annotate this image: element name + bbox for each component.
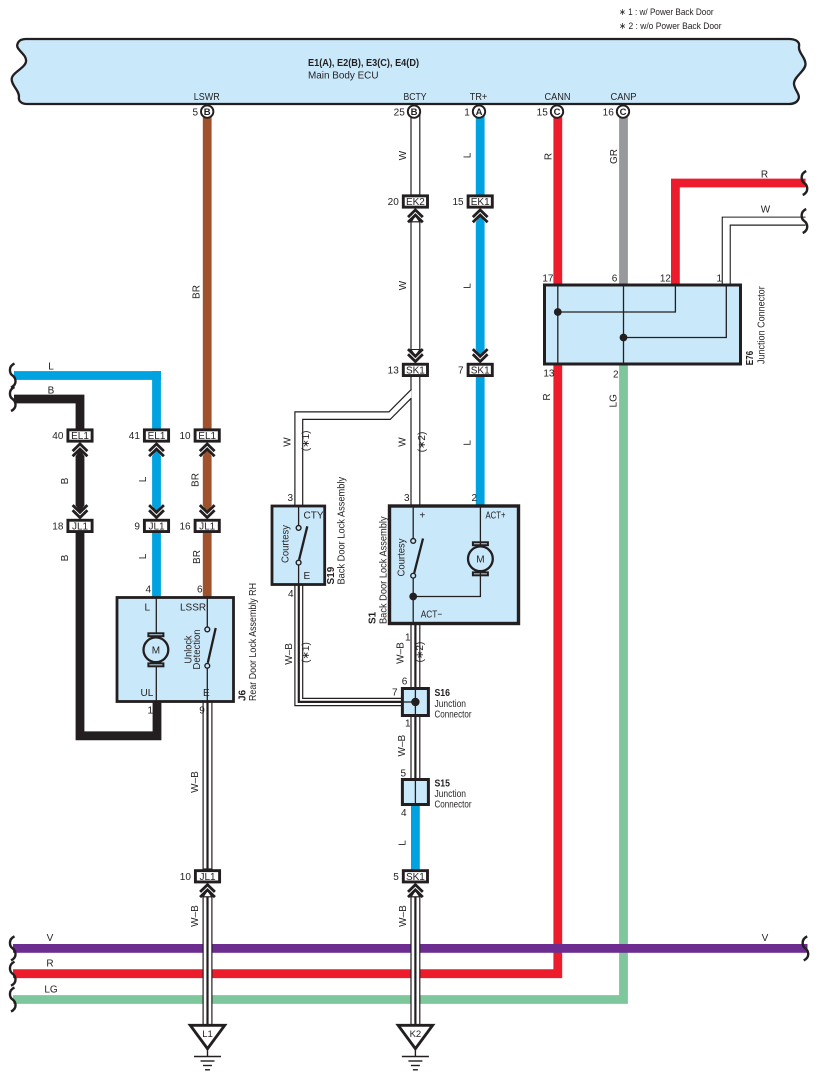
svg-text:W–B: W–B — [398, 905, 409, 927]
S1 junction dot — [409, 593, 417, 601]
connector JL1 pin 16 — [179, 520, 219, 532]
svg-text:ACT+: ACT+ — [486, 511, 506, 522]
svg-text:L: L — [48, 362, 54, 373]
svg-text:Main Body ECU: Main Body ECU — [308, 71, 379, 82]
wire TR+ blue vertical (pin 1 to EK1) — [476, 115, 485, 200]
svg-text:L1: L1 — [202, 1029, 213, 1040]
component S1 Back Door Lock Assembly box — [390, 506, 519, 624]
svg-text:SK1: SK1 — [406, 872, 425, 883]
E76 junction dot pin17 — [554, 308, 562, 316]
ground L1 — [190, 1025, 224, 1070]
svg-text:V: V — [762, 933, 769, 944]
svg-text:Back Door Lock Assembly: Back Door Lock Assembly — [337, 477, 348, 585]
wire blue S15 pin 4 to SK1-5 — [411, 804, 420, 870]
connector SK1 pin 13 — [388, 364, 428, 376]
svg-text:1: 1 — [716, 273, 722, 284]
svg-text:16: 16 — [179, 521, 191, 532]
wire W white E76 pin1 fill — [723, 218, 806, 286]
wire blue below JL1-9 to LSSR pin 4 — [152, 532, 161, 599]
svg-text:W–B: W–B — [284, 643, 295, 665]
S19 courtesy switch — [296, 507, 307, 585]
wire red E76 pin 13 down to bottom corner and left to edge — [13, 364, 558, 974]
connector EK2 pin 20 — [388, 196, 428, 208]
component J6 Rear Door Lock Assembly RH (LSSR) box — [117, 598, 234, 702]
svg-text:1: 1 — [405, 719, 411, 730]
svg-text:5: 5 — [400, 768, 406, 779]
svg-text:S1: S1 — [368, 611, 379, 624]
svg-text:4: 4 — [401, 808, 407, 819]
svg-text:S16: S16 — [435, 688, 451, 699]
chevrons down above SK1-13 — [408, 349, 423, 361]
svg-text:CANP: CANP — [611, 92, 637, 103]
connector EL1 pin 40 — [52, 430, 92, 442]
svg-text:40: 40 — [52, 431, 64, 442]
wire W-B below JL1-10 to ground L1 (over colored horizontals) — [203, 890, 212, 1026]
svg-text:L: L — [463, 283, 474, 289]
svg-text:18: 18 — [52, 521, 64, 532]
chevrons up below SK1-5 — [408, 885, 423, 897]
svg-text:9: 9 — [199, 706, 205, 717]
S1 dot to motor line — [413, 570, 480, 597]
chevrons up below JL1-10 — [200, 885, 215, 897]
svg-text:W–B: W–B — [397, 734, 408, 756]
svg-text:K2: K2 — [410, 1029, 422, 1040]
wire black between EL1-40 and JL1-18 — [76, 456, 85, 506]
svg-text:JL1: JL1 — [72, 521, 89, 532]
svg-text:M: M — [476, 555, 484, 566]
component S16 Junction Connector box — [402, 689, 428, 716]
svg-text:EL1: EL1 — [198, 431, 216, 442]
svg-text:10: 10 — [180, 872, 192, 883]
wire brown tip down above JL1-16 — [203, 505, 212, 512]
svg-text:SK1: SK1 — [406, 365, 425, 376]
svg-text:E: E — [203, 688, 210, 699]
connector SK1 pin 5 — [393, 871, 427, 883]
break symbol LG wire left — [10, 988, 16, 1012]
svg-text:1: 1 — [147, 706, 153, 717]
S16 junction dot — [411, 698, 419, 706]
svg-text:W: W — [398, 437, 409, 447]
pin 16 circle C (CANP) — [603, 105, 630, 118]
svg-text:B: B — [411, 107, 418, 118]
svg-text:B: B — [60, 477, 71, 484]
E76 internal line to pin 1 — [624, 287, 727, 338]
break symbol V wire left — [10, 936, 16, 960]
svg-text:7: 7 — [458, 365, 464, 376]
svg-text:Rear Door Lock Assembly RH: Rear Door Lock Assembly RH — [248, 583, 259, 701]
chevrons up below EK2 — [408, 210, 423, 222]
svg-text:JL1: JL1 — [148, 521, 165, 532]
E76 internal line pin17-13 — [557, 287, 559, 363]
svg-text:4: 4 — [288, 589, 294, 600]
chevrons up below EK1 — [473, 210, 488, 222]
LSSR unlock detection switch — [205, 598, 216, 701]
wire W-B LSSR pin 9 to JL1-10 — [203, 700, 212, 869]
svg-text:BCTY: BCTY — [404, 92, 427, 103]
svg-text:Courtesy: Courtesy — [281, 525, 292, 563]
svg-text:Junction: Junction — [435, 699, 467, 710]
connector EL1 pin 41 — [129, 430, 169, 442]
svg-text:BR: BR — [192, 285, 203, 299]
svg-text:15: 15 — [452, 197, 464, 208]
wire W-B below SK1-5 to ground K2 (over colored horizontals) — [411, 890, 420, 1026]
S15 internal vertical line — [414, 780, 416, 804]
wire blue tip down above JL1-9 — [152, 505, 161, 512]
connector JL1 pin 18 — [52, 520, 92, 532]
wire L blue from left edge (horizontal) — [14, 371, 161, 380]
wire brown tip up below EL1-10 — [203, 450, 212, 457]
break symbol W wire right — [802, 209, 808, 233]
LSSR motor to pin 1 line — [155, 667, 157, 701]
wire blue between EK1 and SK1-7 — [476, 222, 485, 350]
svg-text:BR: BR — [191, 473, 202, 487]
svg-text:L: L — [138, 553, 149, 559]
wire CANP gray vertical (pin 16 to E76 pin 6) — [619, 115, 628, 287]
wire W fork inner line — [303, 398, 412, 507]
wire black tip up below EL1-40 — [76, 450, 85, 457]
wire W fork outer line — [295, 389, 412, 507]
wire black tip down above JL1-18 — [76, 505, 85, 512]
svg-text:EL1: EL1 — [148, 431, 166, 442]
svg-text:B: B — [60, 554, 71, 561]
svg-text:Connector: Connector — [435, 800, 473, 811]
svg-text:LSWR: LSWR — [194, 92, 220, 103]
svg-text:L: L — [138, 476, 149, 482]
svg-text:Courtesy: Courtesy — [397, 539, 408, 577]
svg-text:13: 13 — [543, 369, 555, 380]
motor M of LSSR — [144, 633, 169, 666]
svg-text:JL1: JL1 — [199, 521, 216, 532]
svg-text:L: L — [463, 152, 474, 158]
pin 1 circle A (TR+) — [464, 105, 485, 118]
svg-text:UL: UL — [141, 688, 154, 699]
connector EK1 pin 15 — [452, 196, 492, 208]
wire W white BCTY pin 25 to EK2 — [411, 115, 420, 195]
pin 15 circle C (CANN) — [537, 105, 564, 118]
svg-text:E: E — [304, 571, 311, 582]
wire blue tip up below EK1 — [476, 216, 485, 223]
svg-text:(∗1): (∗1) — [301, 430, 312, 451]
svg-text:6: 6 — [402, 677, 408, 688]
svg-text:B: B — [204, 107, 211, 118]
svg-text:S19: S19 — [326, 566, 337, 584]
component E76 Junction Connector box — [545, 285, 741, 364]
S16 internal vertical line — [414, 689, 416, 715]
svg-text:R: R — [46, 959, 53, 970]
svg-text:CANN: CANN — [545, 92, 571, 103]
S1 pin 2 to motor line — [479, 507, 481, 547]
svg-text:6: 6 — [612, 273, 618, 284]
svg-text:SK1: SK1 — [471, 365, 490, 376]
wire W white E76 pin 1 up and right to edge break (band) — [722, 217, 805, 287]
wire L blue vertical to EL1-41 — [152, 371, 161, 430]
pin 5 circle B (LSWR) — [192, 105, 213, 118]
svg-text:CTY: CTY — [304, 511, 324, 522]
svg-text:Back Door Lock Assembly: Back Door Lock Assembly — [379, 516, 390, 624]
svg-text:JL1: JL1 — [199, 872, 216, 883]
svg-text:3: 3 — [287, 493, 293, 504]
svg-text:1: 1 — [464, 108, 470, 119]
svg-text:C: C — [620, 107, 627, 118]
wire LSWR brown vertical (pin 5 to EL1-10) — [203, 115, 212, 430]
svg-text:9: 9 — [134, 521, 140, 532]
connector EL1 pin 10 — [179, 430, 219, 442]
svg-text:7: 7 — [392, 687, 398, 698]
chevrons down above JL1-16 — [200, 505, 215, 517]
svg-text:25: 25 — [394, 108, 406, 119]
svg-text:R: R — [761, 170, 768, 181]
Main Body ECU band — [12, 39, 806, 104]
chevrons down above JL1-9 — [149, 505, 164, 517]
S1 courtesy switch — [411, 507, 423, 623]
svg-text:W: W — [761, 205, 771, 216]
svg-text:20: 20 — [388, 197, 400, 208]
svg-text:R: R — [542, 393, 553, 400]
connector JL1 pin 9 — [134, 520, 168, 532]
wire blue between EL1-41 and JL1-9 — [152, 456, 161, 506]
svg-text:V: V — [47, 933, 54, 944]
svg-text:B: B — [48, 386, 55, 397]
svg-text:15: 15 — [537, 108, 549, 119]
svg-text:3: 3 — [404, 493, 410, 504]
svg-text:W: W — [282, 437, 293, 447]
svg-text:LG: LG — [44, 985, 58, 996]
svg-text:LG: LG — [609, 394, 620, 408]
break symbol R wire right — [802, 171, 808, 195]
svg-text:GR: GR — [609, 149, 620, 164]
svg-text:EK2: EK2 — [406, 197, 425, 208]
component S19 Back Door Lock Assembly box — [272, 506, 325, 585]
LSSR pin 4 internal line — [155, 598, 157, 633]
svg-text:L: L — [463, 440, 474, 446]
wire red E76 pin 12 up and right to edge break — [675, 183, 805, 287]
connector JL1 pin 10 — [180, 871, 220, 883]
connector SK1 pin 7 — [458, 364, 492, 376]
chevrons up below EL1-10 — [200, 444, 215, 456]
svg-text:4: 4 — [145, 585, 151, 596]
svg-text:EK1: EK1 — [471, 197, 490, 208]
svg-text:1: 1 — [405, 633, 411, 644]
wire W white tip up below EK2 — [411, 216, 420, 223]
wire W white fork branch to S19 pin 3 (white band) — [295, 389, 412, 507]
svg-text:L: L — [398, 840, 409, 846]
svg-text:W: W — [398, 150, 409, 160]
wire blue tip up below EL1-41 — [152, 450, 161, 457]
wire W white tip down above SK1-13 — [411, 350, 420, 357]
wire brown between EL1-10 and JL1-16 — [203, 456, 212, 506]
wire V purple horizontal (drawn over red and green) — [13, 944, 808, 953]
wire W-B S16 pin 1 to S15 pin 5 — [411, 715, 420, 780]
svg-text:2: 2 — [471, 493, 477, 504]
E76 internal line to pin 12 — [558, 287, 676, 313]
component S15 Junction Connector box — [402, 780, 428, 805]
wire blue below SK1-7 to S1 pin 2 — [476, 376, 485, 508]
svg-text:2: 2 — [613, 370, 619, 381]
svg-text:E1(A), E2(B), E3(C), E4(D): E1(A), E2(B), E3(C), E4(D) — [308, 58, 419, 69]
svg-text:(∗1): (∗1) — [301, 642, 312, 663]
wire W white below SK1-13 to S1 pin 3 — [411, 376, 420, 508]
chevrons down above JL1-18 — [73, 505, 88, 517]
wire LG green E76 pin 2 down to bottom corner and left to edge — [13, 364, 624, 1000]
svg-text:S15: S15 — [435, 779, 451, 790]
wire black below JL1-18 down, right, up to LSSR pin 1 — [80, 532, 157, 736]
wire W-B white/black S1 pin 1 to S16 pin 6 — [411, 623, 420, 689]
svg-text:M: M — [152, 646, 160, 657]
svg-text:J6: J6 — [238, 689, 249, 701]
chevrons up below EL1-40 — [73, 444, 88, 456]
chevrons down above SK1-7 — [473, 349, 488, 361]
svg-text:Junction Connector: Junction Connector — [757, 286, 768, 364]
svg-text:TR+: TR+ — [470, 92, 488, 103]
chevrons up below EL1-41 — [149, 444, 164, 456]
svg-text:10: 10 — [179, 431, 191, 442]
break symbol V wire right — [803, 936, 809, 960]
svg-text:Connector: Connector — [435, 710, 473, 721]
svg-text:R: R — [543, 153, 554, 160]
svg-text:17: 17 — [542, 273, 554, 284]
wire blue tip down above SK1-7 — [476, 350, 485, 357]
break symbol R wire left — [10, 962, 16, 986]
motor M of S1 — [468, 542, 493, 575]
svg-text:13: 13 — [388, 365, 400, 376]
svg-text:L: L — [144, 603, 150, 614]
break symbol L wire left — [10, 364, 16, 388]
svg-text:W–B: W–B — [190, 905, 201, 927]
svg-text:C: C — [554, 107, 561, 118]
svg-text:16: 16 — [603, 108, 615, 119]
E76 junction dot pin6 — [620, 334, 628, 342]
svg-text:∗ 1 : w/ Power Back Door: ∗ 1 : w/ Power Back Door — [619, 7, 714, 18]
svg-text:W–B: W–B — [396, 642, 407, 664]
svg-text:(∗2): (∗2) — [415, 642, 426, 663]
svg-text:W: W — [398, 280, 409, 290]
svg-text:E76: E76 — [745, 350, 756, 365]
svg-text:BR: BR — [192, 550, 203, 564]
svg-text:W–B: W–B — [190, 771, 201, 793]
svg-text:Junction: Junction — [435, 789, 467, 800]
pin 25 circle B (BCTY) — [394, 105, 421, 118]
svg-text:5: 5 — [192, 108, 198, 119]
svg-text:+: + — [419, 511, 425, 522]
wire CANN red vertical (pin 15 to E76 pin 17, continues pin 13 down) — [553, 115, 562, 287]
svg-text:Detection: Detection — [192, 630, 203, 670]
wire W white between EK2 and SK1-13 — [411, 222, 420, 350]
svg-text:(∗2): (∗2) — [417, 432, 428, 453]
svg-text:A: A — [476, 107, 483, 118]
S16 internal horizontal line — [404, 701, 416, 703]
svg-text:EL1: EL1 — [71, 431, 89, 442]
wire brown below JL1-16 to LSSR pin 6 — [203, 532, 212, 599]
ground K2 — [398, 1025, 432, 1070]
wire B black from left edge L-path — [14, 399, 80, 430]
svg-text:LSSR: LSSR — [180, 603, 206, 614]
break symbol B wire left — [10, 387, 16, 411]
svg-text:12: 12 — [660, 273, 672, 284]
E76 internal line pin6-2 — [623, 287, 625, 363]
wire W-B S19 pin 4 down and right to S16 pin 7 — [295, 507, 403, 706]
svg-text:5: 5 — [393, 872, 399, 883]
svg-text:41: 41 — [129, 431, 141, 442]
svg-text:ACT−: ACT− — [421, 610, 443, 621]
svg-text:∗ 2 : w/o Power Back Door: ∗ 2 : w/o Power Back Door — [619, 21, 722, 32]
svg-text:6: 6 — [197, 585, 203, 596]
